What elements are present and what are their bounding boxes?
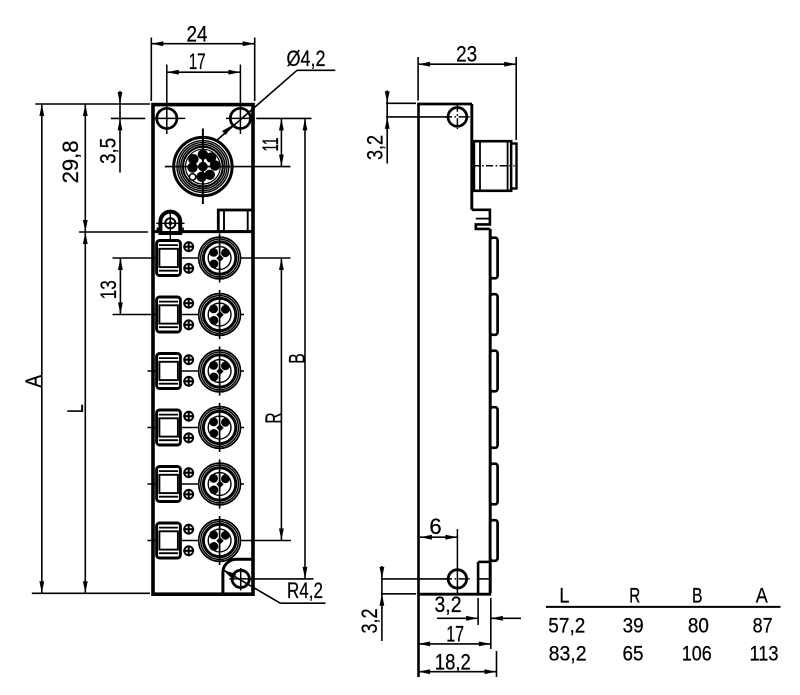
svg-text:11: 11 (258, 138, 283, 152)
svg-text:3,2: 3,2 (435, 592, 462, 617)
row 1 M8 socket (199, 237, 241, 279)
row 5 centerline (148, 483, 245, 485)
bottom tab side view (477, 562, 480, 593)
dimension 23 (417, 57, 419, 101)
dimension 18,2 (496, 651, 498, 677)
M12 connector rings (174, 137, 232, 195)
M8 bump row 4 side view (490, 407, 497, 448)
svg-text:R: R (629, 585, 640, 608)
side view top hole (448, 108, 467, 127)
M8 bump row 3 side view (490, 351, 497, 392)
row 1 centerline (113, 257, 291, 259)
addressing window (218, 210, 253, 232)
svg-text:80: 80 (688, 615, 709, 638)
mounting hole top-left (157, 108, 177, 128)
svg-text:A: A (756, 585, 768, 608)
side view bottom hole (448, 570, 466, 588)
row 2 centerline (113, 314, 245, 316)
row 2 LED window (157, 297, 181, 332)
svg-text:17: 17 (446, 622, 464, 647)
svg-text:B: B (285, 353, 310, 364)
dimension A (41, 104, 43, 593)
row 4 screws (183, 411, 194, 422)
mounting hole bottom-right (232, 570, 249, 587)
svg-text:65: 65 (623, 642, 644, 665)
row 6 centerline (148, 540, 292, 542)
row 4 vertical centerline (219, 403, 221, 452)
row 4 M8 socket (199, 407, 241, 449)
M12 pins (198, 149, 208, 159)
table rule (546, 606, 781, 608)
svg-text:R: R (261, 413, 286, 424)
side view top edge (417, 103, 472, 106)
row 2 vertical centerline (219, 290, 221, 339)
row 5 vertical centerline (219, 460, 221, 509)
front view body outline (153, 105, 253, 595)
extension line bottom edge (32, 592, 150, 594)
M8 bump row 2 side view (490, 294, 497, 335)
row 4 LED window (157, 410, 181, 445)
svg-text:3,2: 3,2 (363, 135, 388, 160)
row 3 M8 socket (199, 350, 241, 392)
dimension 6 (420, 536, 458, 538)
M12 side cap (511, 144, 516, 189)
svg-text:R4,2: R4,2 (287, 578, 323, 603)
svg-text:13: 13 (96, 280, 121, 299)
M8 bump row 5 side view (490, 464, 497, 505)
svg-text:3,2: 3,2 (357, 609, 382, 634)
side view bottom edge (417, 593, 491, 596)
row 6 vertical centerline (219, 516, 221, 565)
mounting hole top-right (230, 108, 250, 128)
row 3 centerline (148, 370, 245, 372)
row 3 screws (183, 354, 194, 365)
svg-text:L: L (63, 404, 88, 413)
extension line hole center right (256, 117, 311, 119)
row 5 LED window (157, 467, 181, 502)
svg-text:113: 113 (750, 642, 779, 665)
dimension 17 bottom (418, 643, 491, 645)
svg-text:29,8: 29,8 (58, 140, 83, 183)
svg-text:3,5: 3,5 (96, 138, 121, 164)
row 3 vertical centerline (219, 347, 221, 396)
row 3 LED window (157, 354, 181, 389)
svg-text:18,2: 18,2 (435, 650, 471, 675)
latch arch top-left (160, 212, 180, 233)
side view left edge (417, 103, 420, 677)
M8 bump row 1 side view (490, 238, 497, 279)
M8 bump row 6 side view (490, 520, 497, 561)
svg-text:B: B (692, 585, 703, 608)
dimension B (304, 118, 306, 579)
row 4 centerline (148, 427, 245, 429)
row 6 screws (183, 524, 194, 535)
leader diameter 4,2 (216, 70, 297, 141)
M12 side centerline (473, 165, 515, 167)
svg-text:Ø4,2: Ø4,2 (287, 46, 326, 71)
bottom-right rounded tab (223, 559, 254, 593)
latch crosshair (169, 212, 171, 240)
row 1 vertical centerline (219, 234, 221, 283)
side view right upper edge (470, 104, 473, 210)
side view front face (489, 229, 492, 593)
row 5 M8 socket (199, 463, 241, 505)
M12 side block (474, 141, 511, 191)
latch screw circle (165, 218, 175, 228)
row 2 screws (183, 298, 194, 309)
extension line bottom hole right (252, 578, 314, 580)
extension lines 17 through holes (166, 65, 168, 135)
dimension 24 (150, 38, 152, 102)
svg-text:6: 6 (429, 514, 441, 539)
dimension 3,2 top (386, 91, 388, 164)
dimension 3,2 bottom left (381, 566, 383, 641)
svg-text:A: A (21, 375, 46, 388)
svg-text:83,2: 83,2 (549, 642, 587, 665)
dimension 17 top (167, 71, 241, 73)
dimension 29,8 (84, 104, 86, 232)
row 6 M8 socket (199, 520, 241, 562)
svg-text:17: 17 (189, 49, 206, 74)
addressing tab side view (472, 210, 490, 229)
row 2 M8 socket (199, 294, 241, 336)
leader R4,2 (223, 570, 280, 604)
row 1 LED window (157, 241, 181, 276)
svg-text:39: 39 (623, 615, 644, 638)
row 1 screws (183, 241, 194, 252)
dimension R (280, 258, 282, 541)
divider line between connector sections (152, 230, 253, 233)
svg-text:L: L (559, 585, 569, 608)
dimension 13 (119, 258, 121, 315)
dimension 11 (280, 118, 282, 166)
dimension L (84, 232, 86, 593)
dimension 3,5 (119, 91, 121, 173)
svg-text:24: 24 (187, 21, 208, 46)
row 5 screws (183, 467, 194, 478)
svg-text:87: 87 (753, 615, 773, 638)
row 6 LED window (157, 523, 181, 558)
extension line at divider (79, 231, 148, 233)
M12 coding notch (189, 174, 195, 180)
M12 crosshair (202, 129, 204, 205)
svg-text:57,2: 57,2 (548, 615, 585, 638)
extension line top edge (35, 103, 150, 105)
svg-text:106: 106 (682, 642, 712, 665)
svg-text:23: 23 (456, 42, 477, 67)
